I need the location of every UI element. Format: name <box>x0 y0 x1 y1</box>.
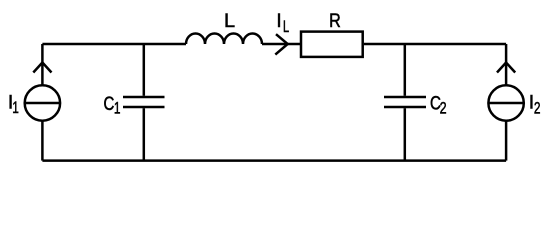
svg-text:2: 2 <box>440 99 447 118</box>
svg-text:1: 1 <box>114 100 121 119</box>
svg-text:1: 1 <box>12 99 19 118</box>
svg-text:I: I <box>276 11 281 32</box>
svg-text:L: L <box>224 11 235 32</box>
svg-text:C: C <box>104 92 115 114</box>
svg-text:L: L <box>283 18 289 37</box>
svg-text:R: R <box>329 10 341 32</box>
svg-text:2: 2 <box>534 100 541 119</box>
